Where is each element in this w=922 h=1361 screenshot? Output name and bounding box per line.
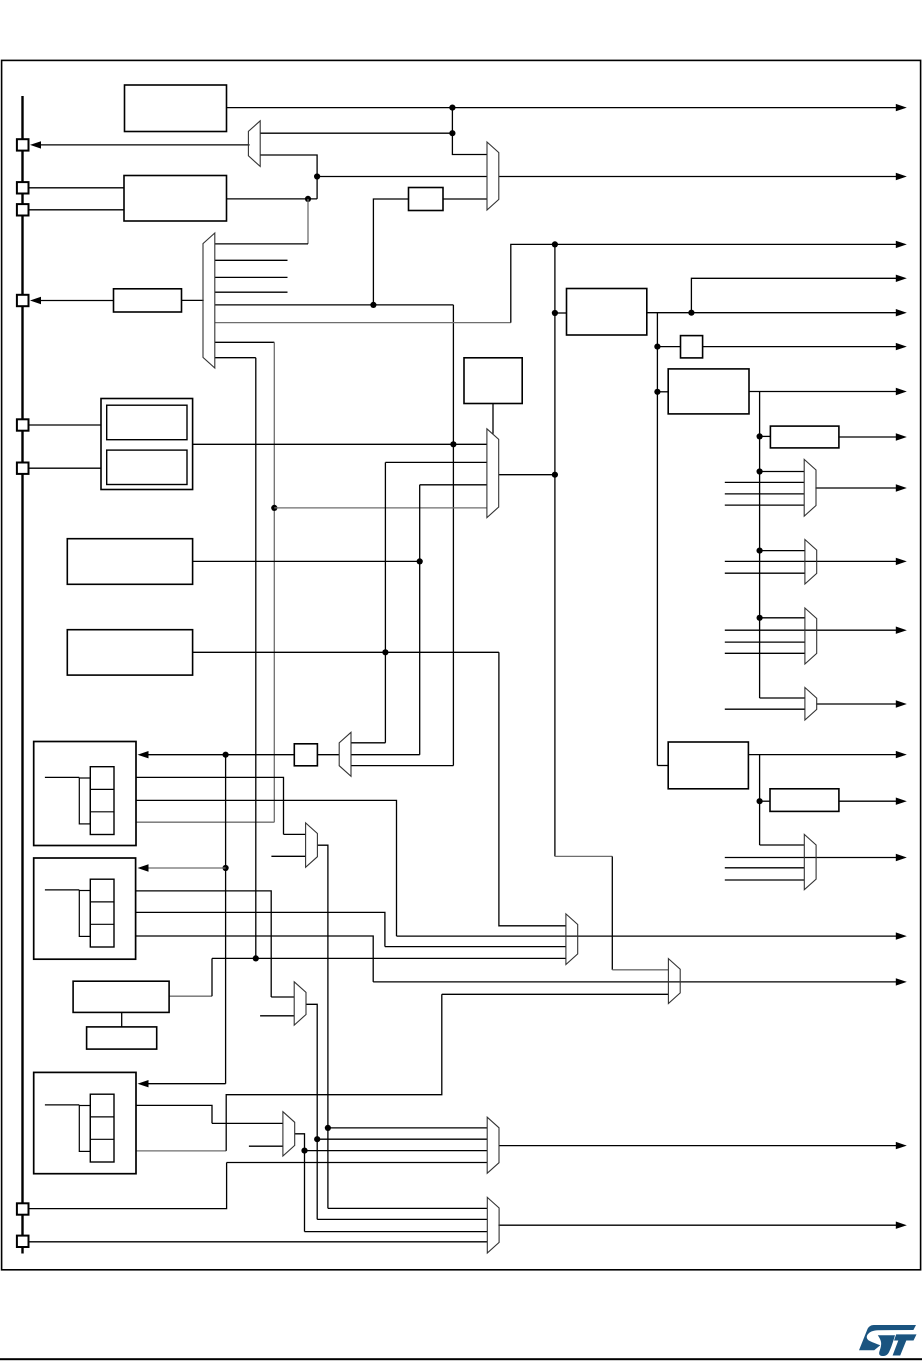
wire branch up to y278 arrow: [691, 278, 897, 312]
box I stack divider 2: [90, 923, 114, 925]
mux M14: [294, 982, 306, 1025]
wire vertical x657: [656, 313, 658, 766]
box A (prescaler): [567, 289, 647, 336]
wire gray drop to mux3 input1: [307, 199, 309, 244]
wire boxE input: [657, 765, 668, 767]
box I stack divider 1: [90, 901, 114, 903]
box M: [87, 1027, 157, 1049]
wire box9 to boxH arrow: [148, 754, 294, 756]
mux M13: [306, 823, 318, 867]
node J21: [223, 865, 229, 871]
mux M11: [668, 959, 680, 1004]
arrow out10: [896, 558, 907, 565]
box E: [668, 742, 748, 789]
wire riser x226 to y1094: [226, 994, 442, 1151]
wire mux6 input1: [760, 550, 805, 552]
node J1: [449, 105, 455, 111]
node J25: [301, 1148, 307, 1154]
pin square P2: [17, 182, 29, 193]
mux M5: [804, 459, 816, 516]
wire mux9 input3: [351, 765, 453, 767]
box I inner feed line: [45, 889, 79, 891]
node J11: [654, 344, 660, 350]
box 9 small divider: [294, 744, 317, 766]
wire mux3 stub c: [215, 291, 288, 293]
box I2 outer: [34, 1072, 136, 1173]
wire vertical x255: [255, 358, 257, 959]
wire pin P2 to box2: [29, 187, 124, 189]
wire mux9 input2: [351, 754, 420, 756]
arrow out6: [896, 343, 907, 350]
arrow into P1: [30, 141, 41, 148]
wire mux17 input1: [328, 1207, 487, 1209]
wire mux16 output to arrow: [499, 1145, 898, 1147]
wire vertical x385: [384, 462, 386, 742]
mux M8: [805, 688, 817, 721]
wire vertical x419: [419, 485, 421, 755]
wire oscillator output to mux4 input1: [193, 443, 487, 445]
wire riser x510 to y244: [511, 244, 555, 322]
wire mux5 stub c: [725, 504, 804, 506]
node J23: [253, 955, 259, 961]
node J5: [370, 302, 376, 308]
wire mux10 through to arrow: [397, 935, 898, 937]
mux M10: [566, 914, 578, 965]
wire mux16 input4: [227, 1162, 488, 1164]
mux M3 (main selector): [203, 233, 215, 368]
arrow out19: [896, 1222, 907, 1229]
wire boxK output to arrow: [839, 800, 898, 802]
wire mux4 input2: [385, 461, 487, 463]
wire mux9 output to box9: [317, 754, 339, 756]
box I2 inner feed line: [45, 1104, 79, 1106]
node J12: [654, 389, 660, 395]
arrow out18: [896, 1142, 907, 1149]
arrow out1: [896, 104, 907, 111]
wire boxG output: [193, 651, 499, 653]
wire boxH stack line2: [114, 800, 397, 936]
pin square P3: [17, 204, 29, 215]
wire mux3 stub a: [215, 259, 288, 261]
node J4: [305, 196, 311, 202]
pin square P4: [17, 295, 29, 306]
wire mux4 input3: [420, 484, 487, 486]
pin square P6: [17, 463, 29, 474]
wire mux13 output: [317, 845, 328, 1208]
arrow into P4: [30, 297, 41, 304]
arrow into boxI2: [138, 1080, 149, 1087]
wire box2 output: [227, 198, 318, 200]
wire mux5 stub a: [725, 481, 804, 483]
wire mux11 input3: [442, 993, 669, 995]
mux M4: [487, 429, 499, 518]
pin square P8: [17, 1236, 29, 1247]
arrow out15: [896, 854, 907, 861]
box I bracket: [79, 891, 90, 937]
wire mux5 stub b: [725, 493, 804, 495]
wire boxI2 stack line3 gray: [114, 1150, 226, 1152]
wire mux11 through to arrow: [373, 981, 897, 983]
wire mux15 output: [295, 1134, 305, 1232]
wire mux15 input2 stub: [249, 1145, 283, 1147]
pin square P1: [17, 139, 29, 150]
box I outer: [34, 858, 136, 959]
wire boxC output to arrow: [749, 391, 898, 393]
arrow out11: [896, 627, 907, 634]
box I2 bracket: [79, 1106, 90, 1152]
wire mux7 stub b: [725, 641, 805, 643]
wire to boxI2 arrow: [148, 1083, 226, 1085]
wire mux2 output to right arrow: [499, 176, 898, 178]
wire mux5 output to arrow: [815, 487, 897, 489]
wire mux3 input7: [215, 341, 274, 343]
wire boxI stack line2: [114, 912, 385, 946]
arrow out4: [896, 275, 907, 282]
wire boxH stack line1: [114, 777, 284, 834]
arrow into boxI: [138, 864, 149, 871]
mux M6: [805, 540, 817, 585]
node J13: [757, 433, 763, 439]
box B1 (top osc block): [125, 85, 227, 132]
node J9: [271, 505, 277, 511]
wire pin P3 to box2: [29, 209, 124, 211]
arrow out12: [896, 700, 907, 707]
wire mux16 input1: [328, 1127, 487, 1129]
node J3: [314, 173, 320, 179]
arrow out16: [896, 932, 907, 939]
wire boxI stack line1: [114, 891, 271, 997]
node J17: [450, 441, 456, 447]
node J8: [552, 472, 558, 478]
wire gray jog to x612: [555, 855, 612, 857]
wire mux13 input1: [284, 833, 306, 835]
wire mux5 input1: [760, 471, 805, 473]
wire mux12 stub b: [725, 867, 805, 869]
wire boxF output: [193, 560, 420, 562]
arrow out8: [896, 433, 907, 440]
wire mux12 through to arrow: [725, 857, 898, 859]
wire mux6 through line to arrow: [725, 560, 898, 562]
wire boxB2 output to arrow: [703, 346, 898, 348]
wire mux3 input8: [215, 357, 256, 359]
wire boxC input: [657, 391, 668, 393]
wire mux15 input1: [212, 1122, 283, 1124]
wire box1 output to right arrow: [227, 107, 898, 109]
wire boxB2 input: [657, 346, 680, 348]
wire mux17 output to arrow: [498, 1224, 897, 1226]
wire mux7 through line to arrow: [725, 629, 898, 631]
box H stack divider 2: [90, 811, 114, 813]
wire boxB output to mux4 select: [492, 404, 494, 434]
mux M1 (to P1): [248, 121, 260, 167]
wire mux17 input2: [317, 1218, 487, 1220]
wire mux1 input2 down: [260, 155, 317, 199]
oscillator inner box 1: [107, 405, 187, 440]
node J14: [757, 468, 763, 474]
wire mux16 input2: [317, 1138, 487, 1140]
wire mux1 input1: [260, 132, 452, 134]
box I2 stack divider 1: [90, 1116, 114, 1118]
oscillator inner box 2: [107, 450, 187, 484]
wire vertical x225: [225, 755, 227, 1084]
wire mux1 output to pin P1: [41, 144, 250, 146]
mux M12: [804, 834, 816, 889]
box B (RC osc): [464, 358, 522, 404]
wire boxA input: [555, 312, 567, 314]
wire mux14 output: [306, 1004, 317, 1219]
box K divider: [770, 789, 839, 812]
box I register stack: [90, 879, 114, 947]
wire mux8 input1: [760, 697, 805, 699]
wire boxD input: [760, 435, 771, 437]
wire mux2 input2 long: [317, 176, 487, 178]
wire boxL gray output: [169, 995, 212, 997]
wire boxD output to arrow: [839, 436, 898, 438]
wire y244 to right arrow: [555, 243, 898, 245]
mux M15: [283, 1112, 295, 1156]
wire mux8 output to arrow: [816, 703, 897, 705]
wire mux16 input3: [305, 1150, 488, 1152]
box C: [668, 369, 749, 414]
wire boxI stack line3: [114, 936, 373, 982]
node J22: [325, 1125, 331, 1131]
box H outer: [34, 742, 136, 846]
mux M2: [487, 142, 499, 210]
box I2 stack divider 2: [90, 1138, 114, 1140]
mux M9 (to boxH): [339, 732, 351, 776]
wire gray to mux4 input4: [274, 507, 487, 509]
node J16: [757, 615, 763, 621]
wire boxE output to arrow: [748, 754, 897, 756]
ST logo: [859, 1325, 917, 1356]
wire gray vertical x274: [273, 342, 275, 822]
wire pin P7 net: [29, 1163, 227, 1209]
wire riser x212: [211, 958, 213, 996]
pin square P7: [17, 1203, 29, 1214]
wire corner x498 to mux10 input1: [499, 652, 566, 926]
wire boxK input: [760, 800, 770, 802]
wire mux12 input1: [760, 844, 805, 846]
wire mux6 stub b: [725, 572, 805, 574]
wire mux17 input3: [305, 1231, 488, 1233]
box H register stack: [90, 767, 114, 835]
box D divider: [770, 426, 839, 448]
wire mux4 output: [499, 474, 555, 476]
wire pin P6 to oscillator: [29, 467, 101, 469]
wire mux3 input1: [215, 243, 308, 245]
wire gray to mux11 input1: [612, 969, 668, 971]
wire divider box input riser: [373, 199, 408, 305]
box H inner feed line: [45, 776, 79, 778]
wire box3 to pin P4: [41, 300, 114, 302]
arrow out14: [896, 798, 907, 805]
footer rule: [0, 1358, 922, 1360]
wire mux14 input1: [271, 996, 294, 998]
box H stack divider 1: [90, 788, 114, 790]
wire mux3 stub b: [215, 276, 288, 278]
wire gray from boxH stack line3: [114, 821, 274, 823]
wire mux10 input3: [385, 946, 566, 948]
arrow out3: [896, 241, 907, 248]
box divider /2: [409, 188, 444, 211]
wire mux14 input2 stub: [260, 1015, 294, 1017]
node J10: [688, 310, 694, 316]
wire vertical x759 lower: [759, 755, 761, 845]
mux M16: [487, 1117, 499, 1173]
oscillator outer box: [101, 399, 193, 490]
node J20: [223, 752, 229, 758]
wire mux7 stub c: [725, 652, 805, 654]
arrow out2: [896, 173, 907, 180]
node J2: [449, 130, 455, 136]
box F: [67, 539, 192, 585]
arrow out9: [896, 484, 907, 491]
mux M17: [487, 1197, 499, 1253]
arrow out13: [896, 751, 907, 758]
mux M7: [805, 608, 817, 664]
box H bracket: [79, 778, 90, 824]
arrow into boxH: [138, 751, 149, 758]
wire divider box to mux2 input3: [443, 198, 487, 200]
wire boxI2 stack line2 short: [114, 1127, 136, 1129]
bus line: [21, 96, 23, 1254]
box G: [67, 630, 192, 675]
wire mux3 input6 gray: [215, 322, 511, 324]
wire vertical x554: [554, 244, 556, 856]
wire mux13 input2 stub: [271, 855, 305, 857]
box B2 (second osc block): [124, 176, 227, 222]
box L: [73, 981, 169, 1012]
wire mux3 output to box3: [182, 299, 204, 301]
wire boxL to boxM connector: [121, 1012, 123, 1027]
wire pin P5 to oscillator: [29, 424, 101, 426]
node J26: [757, 798, 763, 804]
box I2 register stack: [90, 1094, 114, 1162]
wire vertical x612: [611, 856, 613, 969]
wire mux9 input1: [351, 742, 385, 744]
wire mux7 input1: [760, 617, 805, 619]
box A2 small: [681, 336, 703, 358]
wire junction 452 down to mux2 input1: [452, 108, 487, 155]
wire pin P8 to mux17 input4: [29, 1241, 488, 1243]
arrow out17: [896, 978, 907, 985]
arrow out5: [896, 309, 907, 316]
pin square P5: [17, 419, 29, 430]
wire mux8 stub: [725, 708, 805, 710]
node J18: [382, 649, 388, 655]
arrow out7: [896, 388, 907, 395]
wire boxI2 stack line1: [114, 1105, 212, 1123]
node J15: [757, 548, 763, 554]
node J6: [552, 241, 558, 247]
wire gray to boxI arrow: [148, 867, 226, 869]
node J7: [552, 310, 558, 316]
box small output buffer: [114, 289, 182, 312]
node J24: [314, 1136, 320, 1142]
wire boxA output to arrow: [647, 312, 898, 314]
wire mux12 stub c: [725, 879, 805, 881]
wire vertical x759 upper: [759, 392, 761, 699]
node J19: [417, 558, 423, 564]
wire mux3 input5 long: [215, 304, 454, 306]
wire y958 long to mux10 input4: [212, 957, 566, 959]
wire HSE vertical x453: [452, 305, 454, 766]
